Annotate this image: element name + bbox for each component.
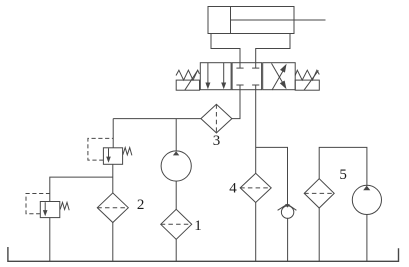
wire cylinder left port to valve A port [211, 34, 240, 63]
relief valve 1 spring [123, 148, 132, 156]
cylinder body [208, 7, 294, 34]
wire check valve to tank [287, 218, 289, 261]
valve U1 center position box [232, 63, 262, 90]
wire valve P port down to filter 3 [232, 90, 240, 119]
relief valve 1 pilot dashed line [88, 138, 113, 160]
valve right box crossed arrow up [272, 64, 287, 90]
wire pressure line filter 3 to relief valve 1 [113, 118, 201, 120]
wire filter 4 to tank [255, 203, 257, 262]
valve right spring zigzag [295, 70, 319, 80]
check valve ball [281, 206, 293, 218]
relief valve 2 spring [60, 202, 69, 210]
svg-text:1: 1 [194, 218, 202, 234]
filter 4 [240, 173, 271, 202]
svg-text:2: 2 [137, 197, 145, 213]
wire pump 1 suction to filter 1 [175, 181, 177, 209]
valve left spring zigzag [176, 70, 200, 80]
valve U1 right position box [263, 63, 296, 90]
wire relief valve 1 inlet drop [112, 119, 114, 148]
wire pump 2 suction to tank [366, 214, 368, 261]
filter 5 dashed element [304, 192, 334, 194]
wire cylinder right port to valve B port [256, 34, 290, 63]
pump 1 [161, 151, 191, 181]
cylinder rod [231, 19, 326, 21]
relief valve 2 pilot dashed line [26, 194, 50, 214]
wire circulation loop top [319, 147, 367, 186]
valve left box arrow 2 [221, 63, 226, 90]
pump 2 [352, 185, 381, 214]
valve center box blocked port bottom-left [236, 85, 243, 90]
wire filter 2 to tank [112, 223, 114, 262]
wire valve T port down through filter 4 [255, 90, 257, 174]
relief valve 2 body [40, 202, 60, 218]
wire filter 1 to tank [175, 239, 177, 261]
cylinder piston [230, 7, 232, 34]
valve right spring diagonal [304, 70, 318, 90]
svg-text:4: 4 [229, 181, 237, 197]
valve left spring box [176, 80, 199, 90]
relief valve 2 flow arrow [43, 202, 48, 216]
filter 1 [161, 209, 192, 239]
check valve seat [278, 204, 297, 210]
wire pump 1 riser [175, 119, 177, 152]
wire filter 5 to tank [318, 208, 320, 261]
svg-text:5: 5 [339, 167, 347, 183]
wire relief valve 2 outlet to tank [49, 218, 51, 262]
valve U1 left position box [200, 63, 231, 90]
valve right box crossed arrow down [272, 63, 287, 89]
filter 4 dashed element [240, 187, 271, 189]
svg-text:3: 3 [213, 133, 221, 149]
valve right spring box [295, 80, 319, 90]
filter 3 dashed element [215, 104, 217, 133]
pump 2 outlet triangle [363, 186, 370, 191]
relief valve 1 flow arrow [106, 148, 111, 163]
wire branch to check valve [256, 147, 288, 204]
filter 1 dashed element [161, 223, 192, 225]
wire relief valve 1 outlet to filter 2 [112, 164, 114, 193]
filter 3 [201, 104, 232, 133]
tank [8, 247, 399, 261]
valve left box arrow 1 [205, 63, 210, 90]
filter 5 [304, 179, 334, 208]
filter 2 [97, 193, 128, 223]
valve center box blocked port top-right [252, 63, 259, 68]
valve center box blocked port top-left [236, 63, 243, 68]
check valve arrow [285, 204, 290, 207]
wire branch to relief valve 2 [50, 177, 113, 201]
pump 1 outlet triangle [173, 151, 179, 155]
filter 2 dashed element [97, 207, 128, 209]
valve left spring diagonal [185, 70, 198, 90]
relief valve 1 body [103, 148, 122, 165]
valve center box blocked port bottom-right [252, 85, 259, 90]
